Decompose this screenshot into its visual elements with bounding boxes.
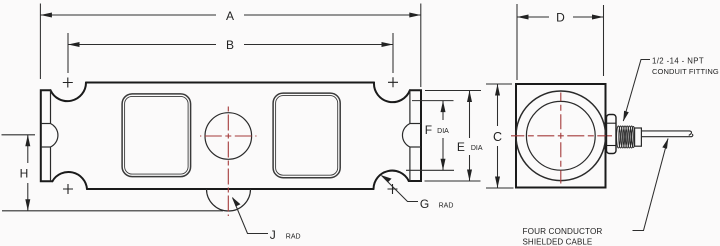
bottom load button semicircle (J radius) xyxy=(207,189,251,211)
dim B right arrow xyxy=(382,42,394,47)
dim A left arrow xyxy=(40,13,52,18)
right cap cross line bottom xyxy=(410,146,421,148)
dim A right arrow xyxy=(409,13,421,18)
center hole circle xyxy=(205,113,252,160)
left cap cross line top xyxy=(41,123,51,125)
dim F bottom arrow xyxy=(441,159,446,171)
right cap inner edge with load button bulge xyxy=(402,90,409,181)
svg-text:RAD: RAD xyxy=(286,234,301,241)
svg-text:J: J xyxy=(270,228,276,242)
body top edge xyxy=(86,82,374,84)
bottom tangent line (mounting surface) xyxy=(2,210,223,212)
dim E line xyxy=(469,91,471,139)
dim F bottom extension line xyxy=(406,169,454,171)
svg-text:1/2 -14 - NPT: 1/2 -14 - NPT xyxy=(652,57,704,66)
top-right notch arc xyxy=(374,83,410,103)
svg-text:SHIELDED CABLE: SHIELDED CABLE xyxy=(523,238,593,246)
NPT leader arrow xyxy=(623,111,629,122)
inner circle (button face) xyxy=(526,101,595,170)
body bottom edge xyxy=(87,188,374,190)
right end cap outline xyxy=(409,90,421,181)
red centerline horizontal through hole xyxy=(200,135,257,137)
dim D left arrow xyxy=(517,15,529,20)
dim D right arrow xyxy=(592,15,604,20)
threaded stub (coil) xyxy=(617,126,635,148)
hex nut flat line top xyxy=(607,122,617,124)
dim A left extension line xyxy=(39,4,41,80)
dim A right extension line xyxy=(420,4,422,88)
svg-text:CONDUIT FITTING: CONDUIT FITTING xyxy=(652,67,719,76)
svg-text:A: A xyxy=(226,9,234,23)
dim C bottom arrow xyxy=(495,177,500,189)
dim C bottom extension line xyxy=(486,187,514,189)
dim E bottom arrow xyxy=(467,170,472,182)
dim D right extension line xyxy=(603,5,605,76)
bottom-left notch arc xyxy=(52,172,87,189)
left end cap outline xyxy=(41,90,53,181)
left cap inner edge with load button bulge xyxy=(51,90,58,181)
dim D left extension line xyxy=(516,4,518,80)
hex nut flat line bottom xyxy=(607,145,617,147)
svg-text:B: B xyxy=(226,38,234,52)
cable leader arrow xyxy=(662,138,668,149)
svg-text:C: C xyxy=(493,130,502,144)
svg-text:D: D xyxy=(556,11,565,25)
cable leader line xyxy=(633,139,669,231)
right cap cross line top xyxy=(410,123,421,125)
notch center mark bottom-left xyxy=(63,184,73,194)
ferrule at end of threads xyxy=(635,128,642,146)
G leader line xyxy=(382,176,419,202)
cable bottom line xyxy=(641,134,692,137)
dim C top arrow xyxy=(495,84,500,96)
G leader arrow xyxy=(381,175,391,182)
svg-text:E: E xyxy=(457,140,465,154)
dim A line xyxy=(40,14,216,16)
dim F top extension line xyxy=(412,100,454,102)
red centerline vertical through hole and button xyxy=(227,107,229,217)
notch center mark top-right xyxy=(388,77,398,87)
svg-text:FOUR CONDUCTOR: FOUR CONDUCTOR xyxy=(523,227,603,236)
J leader line xyxy=(233,198,269,234)
dim E top extension line xyxy=(425,90,481,92)
dim D line xyxy=(517,16,549,18)
dim E bottom extension line xyxy=(425,180,481,182)
dim B left arrow xyxy=(68,42,80,47)
dim B left extension line xyxy=(67,33,69,73)
notch center mark top-left xyxy=(63,78,73,88)
conduit fitting hex nut xyxy=(607,115,617,154)
svg-text:DIA: DIA xyxy=(437,128,449,135)
J leader arrow xyxy=(232,197,240,206)
dim C line xyxy=(497,84,499,126)
top-left notch arc xyxy=(51,83,87,102)
svg-text:G: G xyxy=(420,197,429,211)
dim C top extension line xyxy=(486,83,512,85)
dim H top arrow xyxy=(25,135,30,147)
pocket 2 (right rounded rectangle, double outline) xyxy=(273,93,340,178)
dim B right extension line xyxy=(392,33,394,73)
NPT leader line xyxy=(623,60,650,122)
outer circle (cap face) xyxy=(516,91,606,181)
body square xyxy=(516,84,606,188)
bottom-right notch arc xyxy=(374,171,409,189)
dim E top arrow xyxy=(467,91,472,103)
svg-text:DIA: DIA xyxy=(471,145,483,152)
dim F top arrow xyxy=(441,101,446,113)
red centerline horizontal right view xyxy=(511,135,612,137)
svg-text:RAD: RAD xyxy=(439,202,454,209)
dim H top extension line (button centerline) xyxy=(2,134,36,136)
svg-text:F: F xyxy=(425,123,432,137)
dim H line xyxy=(27,135,29,163)
svg-text:H: H xyxy=(20,167,29,181)
red centerline vertical right view xyxy=(560,93,562,184)
dim B line xyxy=(68,44,216,46)
dim F line xyxy=(442,101,444,120)
notch center mark bottom-right xyxy=(388,184,398,194)
cable top line xyxy=(641,131,691,136)
left cap cross line bottom xyxy=(41,146,51,148)
dim H bottom arrow xyxy=(25,199,30,211)
pocket 1 (left rounded rectangle, double outline) xyxy=(122,94,191,177)
